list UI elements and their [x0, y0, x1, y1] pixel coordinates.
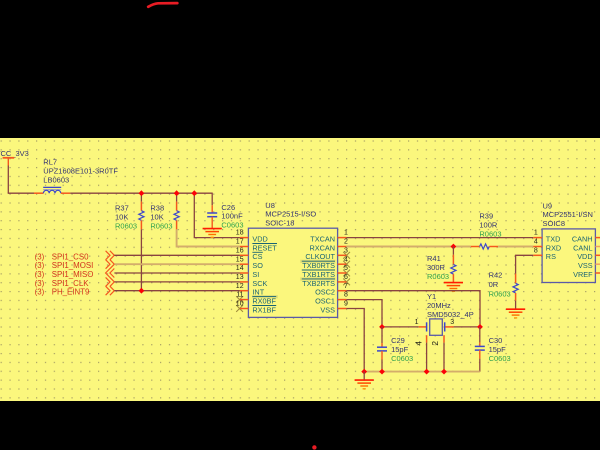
svg-text:(3): (3) — [35, 270, 45, 279]
no-connect X U8 pin 6 — [343, 279, 350, 286]
junction ground rail/Y1 pin2 — [441, 369, 447, 375]
wire R42 to ground — [515, 301, 517, 309]
svg-text:R41: R41 — [427, 254, 441, 263]
svg-text:C29: C29 — [391, 336, 405, 345]
U8 pin 11 stub — [240, 299, 249, 301]
crystal Y1 pin 3 stub — [445, 326, 453, 328]
wire VCC to R38 — [176, 193, 178, 202]
svg-text:11: 11 — [236, 292, 243, 299]
resistor R38 pin bottom — [176, 220, 178, 229]
crystal Y1 pin 1 stub — [419, 326, 426, 328]
crystal Y1 pin 2 stub — [443, 335, 445, 342]
no-connect X U8 pin 3 — [343, 252, 350, 259]
U8 pin 8 stub — [338, 299, 347, 301]
wire OSC1 node to C29 — [381, 327, 383, 343]
svg-text:9: 9 — [344, 301, 348, 308]
svg-text:2: 2 — [344, 239, 348, 246]
svg-text:PH_EINT9: PH_EINT9 — [52, 288, 90, 297]
resistor R42 pin top — [515, 274, 517, 284]
svg-text:RXD: RXD — [546, 243, 561, 252]
svg-text:15: 15 — [236, 256, 244, 263]
wire SPI1_CLK to U8 — [114, 281, 239, 283]
svg-text:TXB2RTS: TXB2RTS — [302, 279, 335, 288]
red pen artifact (bottom dot) — [312, 445, 316, 449]
U9 pin stub CANH — [595, 237, 600, 239]
U8 pin 15 stub — [240, 263, 249, 265]
ground under R42 — [506, 309, 525, 318]
junction OSC1/C29/Y1 — [379, 324, 385, 330]
svg-text:3: 3 — [450, 319, 454, 326]
inductor RL7 pin right — [61, 192, 70, 194]
svg-text:MCP2515-I/SO: MCP2515-I/SO — [265, 210, 316, 219]
svg-text:VDD: VDD — [577, 252, 592, 261]
wire VCC to C26 — [211, 193, 213, 206]
junction RXCAN/R41 — [451, 244, 457, 250]
svg-text:RXCAN: RXCAN — [309, 243, 335, 252]
wire PH_EINT9 to U8 — [114, 290, 239, 292]
IC U8 body MCP2515-I/SO — [248, 228, 337, 317]
svg-text:R0603: R0603 — [489, 289, 511, 298]
svg-text:VSS: VSS — [320, 305, 335, 314]
svg-text:0R: 0R — [489, 280, 499, 289]
U9 pin stub VREF — [595, 272, 600, 274]
wire Y1 pin4 to ground net — [426, 343, 428, 372]
wire crystal ground rail — [364, 371, 480, 373]
wire OSC1 node to Y1 pin1 — [382, 326, 419, 328]
svg-text:1: 1 — [344, 230, 348, 237]
capacitor C30 pin bottom — [479, 350, 481, 359]
wire VCC_3V3 to inductor — [8, 192, 34, 194]
capacitor C26 pin top — [211, 205, 213, 213]
svg-text:C0603: C0603 — [221, 221, 243, 230]
svg-text:CANH: CANH — [572, 235, 593, 244]
junction ground rail/C29 — [379, 369, 385, 375]
wire SPI1_MISO to U8 — [114, 272, 239, 274]
svg-text:RL7: RL7 — [43, 158, 57, 167]
wire OSC2 node to C30 — [479, 327, 481, 343]
capacitor C30 body — [475, 346, 485, 350]
svg-text:TXD: TXD — [546, 235, 561, 244]
off-sheet chevron SPI1_CLK — [106, 277, 115, 286]
resistor R38 body — [174, 211, 179, 221]
junction VCC/R37 — [139, 190, 145, 196]
wire OSC1 U8 to crystal — [346, 300, 382, 327]
U8 pin 13 stub — [240, 281, 249, 283]
junction VCC/U8-VDD — [191, 190, 197, 196]
svg-text:SMD5032_4P: SMD5032_4P — [427, 310, 474, 319]
wire R38 to RESET net — [177, 229, 240, 246]
ground under VSS — [355, 380, 374, 389]
svg-text:C0603: C0603 — [489, 354, 511, 363]
capacitor C26 body — [207, 213, 217, 217]
svg-text:U9: U9 — [543, 201, 553, 210]
svg-text:4: 4 — [413, 341, 423, 346]
svg-text:R0603: R0603 — [150, 222, 172, 231]
svg-text:4: 4 — [534, 239, 538, 246]
off-sheet chevron PH_EINT9 — [106, 286, 115, 295]
wire C30 to ground net — [479, 359, 481, 372]
svg-text:1: 1 — [415, 319, 419, 326]
crystal Y1 pin 4 stub — [426, 335, 428, 342]
svg-text:R37: R37 — [115, 204, 129, 213]
svg-text:15pF: 15pF — [489, 345, 507, 354]
resistor R41 pin top — [452, 255, 454, 265]
svg-text:100R: 100R — [479, 220, 498, 229]
svg-text:U8: U8 — [265, 201, 275, 210]
svg-text:12: 12 — [236, 283, 244, 290]
junction ground rail/Y1 pin4 — [424, 369, 430, 375]
wire VCC rail to C26 — [70, 192, 212, 194]
svg-text:7: 7 — [344, 283, 348, 290]
svg-text:SI: SI — [252, 270, 259, 279]
capacitor C30 pin top — [479, 343, 481, 347]
inductor RL7 pin left — [34, 192, 43, 194]
wire SPI1_CS0 to U8 — [114, 254, 239, 256]
svg-text:6: 6 — [344, 274, 348, 281]
svg-text:RESET: RESET — [252, 243, 277, 252]
svg-text:C0603: C0603 — [391, 354, 413, 363]
wire R39 to U9 RXD — [498, 246, 533, 248]
U9 pin 8 stub — [533, 254, 542, 256]
svg-text:VREF: VREF — [573, 270, 593, 279]
svg-text:CS: CS — [252, 252, 262, 261]
U9 pin 4 stub — [533, 246, 542, 248]
wire TXCAN U8 to U9 — [346, 237, 533, 239]
wire U9 RS to R42 — [516, 255, 534, 273]
svg-text:R0603: R0603 — [427, 272, 449, 281]
svg-text:TXB0RTS: TXB0RTS — [302, 261, 335, 270]
junction ground rail/VSS — [361, 369, 367, 375]
resistor R37 body — [139, 211, 144, 221]
capacitor C26 pin bottom — [211, 217, 213, 229]
svg-text:16: 16 — [236, 247, 244, 254]
svg-text:(3): (3) — [35, 252, 45, 261]
red pen artifact (top) — [148, 3, 177, 7]
svg-text:10: 10 — [236, 301, 244, 308]
U9 pin stub VSS — [595, 263, 600, 265]
svg-text:(3): (3) — [35, 288, 45, 297]
wire VCC to R37 — [140, 193, 142, 202]
svg-text:RS: RS — [546, 252, 556, 261]
crystal Y1 right plate — [444, 322, 446, 331]
svg-text:4: 4 — [344, 256, 348, 263]
svg-text:TXCAN: TXCAN — [310, 235, 335, 244]
svg-text:UPZ1608E101-3R0TF: UPZ1608E101-3R0TF — [43, 167, 118, 176]
resistor R38 pin top — [176, 202, 178, 211]
schematic sheet background — [0, 138, 600, 401]
ground under C26 — [203, 229, 222, 238]
power symbol VCC_3V3 bar — [3, 157, 15, 159]
svg-text:R38: R38 — [150, 204, 164, 213]
wire RXCAN to R41 — [452, 247, 454, 255]
IC U9 body MCP2551-I/SN — [542, 229, 595, 283]
svg-text:LB0603: LB0603 — [43, 175, 69, 184]
crystal Y1 left plate — [426, 322, 428, 331]
svg-text:14: 14 — [236, 265, 244, 272]
svg-text:RX1BF: RX1BF — [252, 305, 276, 314]
resistor R37 pin top — [140, 202, 142, 211]
ground under R41 — [444, 283, 463, 292]
U8 pin 17 stub — [240, 246, 249, 248]
svg-text:CANL: CANL — [573, 243, 592, 252]
svg-text:C30: C30 — [489, 336, 503, 345]
svg-text:10K: 10K — [150, 213, 163, 222]
U8 pin 9 stub — [338, 308, 347, 310]
svg-text:SCK: SCK — [252, 279, 267, 288]
svg-text:8: 8 — [344, 292, 348, 299]
svg-text:5: 5 — [344, 265, 348, 272]
U8 pin 14 stub — [240, 272, 249, 274]
resistor R42 pin bottom — [515, 293, 517, 301]
U8 pin 12 stub — [240, 290, 249, 292]
svg-text:SPI1_MISO: SPI1_MISO — [52, 270, 94, 279]
U8 pin 11 name RX0BF — [252, 295, 278, 298]
capacitor C29 body — [377, 347, 387, 351]
junction R37/PH_EINT9 — [139, 288, 145, 294]
resistor R42 body — [513, 283, 518, 293]
svg-text:8: 8 — [534, 247, 538, 254]
U8 pin 5 stub — [338, 272, 347, 274]
svg-text:18: 18 — [236, 230, 244, 237]
svg-text:15pF: 15pF — [391, 345, 409, 354]
U8 pin 18 stub — [240, 237, 249, 239]
junction OSC2/C30/Y1 — [477, 324, 483, 330]
U8 pin 16 stub — [240, 254, 249, 256]
svg-text:100nF: 100nF — [221, 212, 243, 221]
svg-text:(3): (3) — [35, 279, 45, 288]
resistor R39 pin left — [471, 246, 480, 248]
svg-text:10K: 10K — [115, 213, 128, 222]
svg-text:R0603: R0603 — [479, 229, 501, 238]
svg-text:C26: C26 — [221, 203, 235, 212]
svg-text:300R: 300R — [427, 263, 446, 272]
svg-text:VCC_3V3: VCC_3V3 — [0, 149, 29, 158]
svg-text:SOIC-18: SOIC-18 — [265, 219, 294, 228]
resistor R39 pin right — [489, 246, 498, 248]
wire VSS to ground symbol — [363, 372, 365, 380]
svg-text:SPI1_CLK: SPI1_CLK — [52, 279, 90, 288]
svg-text:1: 1 — [534, 230, 538, 237]
svg-text:2: 2 — [430, 341, 440, 346]
svg-text:R42: R42 — [489, 270, 503, 279]
wire Y1 pin2 to ground net — [443, 343, 445, 372]
inductor RL7 body — [43, 187, 61, 193]
wire R37 to INT net — [140, 229, 142, 290]
U8 pin 6 name TXB2RTS — [300, 277, 335, 280]
svg-text:(3): (3) — [35, 261, 45, 270]
off-sheet chevron SPI1_CS0 — [106, 251, 115, 260]
wire Y1 pin3 to OSC2 node — [454, 326, 480, 328]
resistor R41 body — [451, 264, 456, 274]
U9 pin stub VDD — [595, 254, 600, 256]
U8 pin 7 stub — [338, 290, 347, 292]
svg-text:SO: SO — [252, 261, 263, 270]
wire SPI1_MOSI to U8 — [114, 263, 239, 265]
U9 pin 1 stub — [533, 237, 542, 239]
wire C29 to ground net — [381, 360, 383, 372]
capacitor C29 pin top — [381, 343, 383, 347]
U8 pin 1 stub — [338, 237, 347, 239]
svg-text:SPI1_CS0: SPI1_CS0 — [52, 252, 89, 261]
svg-text:VSS: VSS — [578, 261, 593, 270]
svg-text:OSC1: OSC1 — [315, 297, 335, 306]
wire OSC2 U8 to crystal — [346, 291, 480, 327]
svg-text:3: 3 — [344, 247, 348, 254]
svg-text:VDD: VDD — [252, 235, 267, 244]
no-connect X U8 pin 5 — [343, 270, 350, 277]
svg-text:R39: R39 — [479, 212, 493, 221]
off-sheet chevron SPI1_MOSI — [106, 260, 115, 269]
capacitor C29 pin bottom — [381, 351, 383, 360]
svg-text:OSC2: OSC2 — [315, 288, 335, 297]
wire RXCAN U8 to R39 — [346, 246, 470, 248]
junction VCC/R38 — [174, 190, 180, 196]
svg-text:20MHz: 20MHz — [427, 301, 451, 310]
off-sheet chevron SPI1_MISO — [106, 269, 115, 278]
svg-text:13: 13 — [236, 274, 244, 281]
U8 pin 6 stub — [338, 281, 347, 283]
svg-text:MCP2551-I/SN: MCP2551-I/SN — [543, 210, 593, 219]
U8 pin 10 stub — [240, 308, 249, 310]
svg-text:R0603: R0603 — [115, 222, 137, 231]
svg-text:17: 17 — [236, 239, 244, 246]
U8 pin 4 name TXB0RTS — [300, 260, 335, 263]
wire VCC to U8 VDD — [194, 193, 240, 238]
wire VSS U8 to ground — [346, 309, 364, 372]
no-connect X U8 pin 10 — [236, 305, 243, 312]
U9 pin stub CANL — [595, 246, 600, 248]
svg-text:SOIC8: SOIC8 — [543, 219, 566, 228]
no-connect X U8 pin 4 — [343, 261, 350, 268]
no-connect X U8 pin 11 — [236, 296, 243, 303]
wire VCC_3V3 vertical — [7, 166, 9, 194]
svg-text:Y1: Y1 — [427, 292, 436, 301]
crystal Y1 body — [430, 319, 443, 335]
svg-text:RX0BF: RX0BF — [252, 297, 276, 306]
U8 pin 3 stub — [338, 254, 347, 256]
resistor R37 pin bottom — [140, 220, 142, 229]
resistor R41 pin bottom — [452, 274, 454, 282]
svg-text:SPI1_MOSI: SPI1_MOSI — [52, 261, 94, 270]
resistor R39 body — [480, 244, 490, 249]
U8 pin 4 stub — [338, 263, 347, 265]
U8 pin 2 stub — [338, 246, 347, 248]
